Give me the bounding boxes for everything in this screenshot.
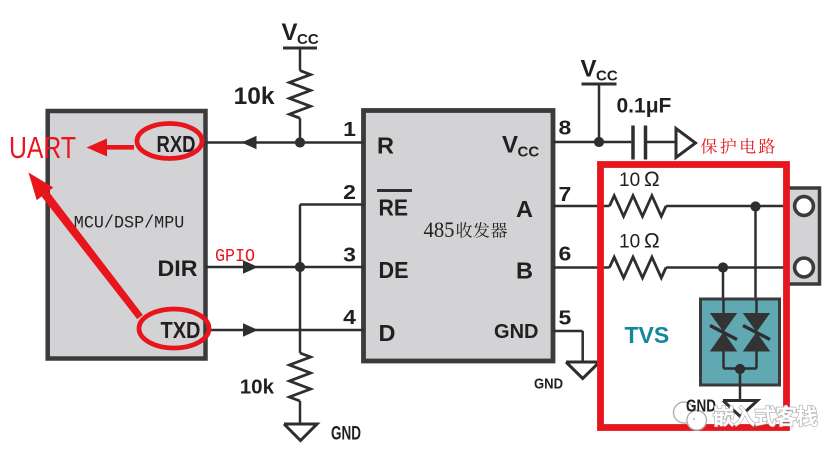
svg-text:GND: GND bbox=[331, 424, 361, 445]
svg-text:4: 4 bbox=[343, 307, 357, 329]
svg-text:CC: CC bbox=[518, 144, 540, 161]
svg-text:5: 5 bbox=[559, 308, 572, 330]
svg-text:TXD: TXD bbox=[161, 317, 201, 343]
svg-text:7: 7 bbox=[559, 184, 572, 206]
svg-text:B: B bbox=[516, 258, 533, 284]
svg-text:10: 10 bbox=[619, 170, 640, 191]
svg-text:D: D bbox=[379, 320, 396, 346]
svg-text:GND: GND bbox=[494, 321, 538, 343]
svg-text:CC: CC bbox=[596, 68, 618, 85]
svg-text:10: 10 bbox=[619, 232, 640, 253]
svg-text:A: A bbox=[516, 196, 533, 222]
svg-text:2: 2 bbox=[343, 182, 356, 204]
svg-text:CC: CC bbox=[297, 31, 319, 48]
svg-text:GPIO: GPIO bbox=[215, 247, 255, 267]
svg-text:TVS: TVS bbox=[625, 322, 670, 348]
svg-text:DE: DE bbox=[379, 257, 409, 283]
svg-text:MCU/DSP/MPU: MCU/DSP/MPU bbox=[74, 214, 185, 234]
svg-text:Ω: Ω bbox=[644, 230, 660, 253]
svg-text:485: 485 bbox=[424, 217, 455, 242]
svg-text:GND: GND bbox=[534, 376, 563, 393]
svg-text:V: V bbox=[502, 132, 518, 159]
svg-text:8: 8 bbox=[559, 118, 572, 140]
svg-text:6: 6 bbox=[559, 244, 572, 266]
svg-text:3: 3 bbox=[343, 245, 356, 267]
svg-text:V: V bbox=[581, 56, 597, 83]
svg-text:V: V bbox=[282, 19, 298, 46]
svg-text:10k: 10k bbox=[234, 83, 275, 110]
svg-text:1: 1 bbox=[343, 119, 356, 141]
svg-text:0.1μF: 0.1μF bbox=[617, 95, 672, 118]
svg-text:GND: GND bbox=[686, 396, 716, 416]
svg-text:Ω: Ω bbox=[644, 168, 660, 191]
svg-text:UART: UART bbox=[9, 130, 76, 165]
svg-text:DIR: DIR bbox=[158, 256, 198, 281]
svg-text:10k: 10k bbox=[240, 376, 275, 399]
svg-text:R: R bbox=[377, 133, 394, 159]
svg-text:RE: RE bbox=[379, 195, 409, 221]
